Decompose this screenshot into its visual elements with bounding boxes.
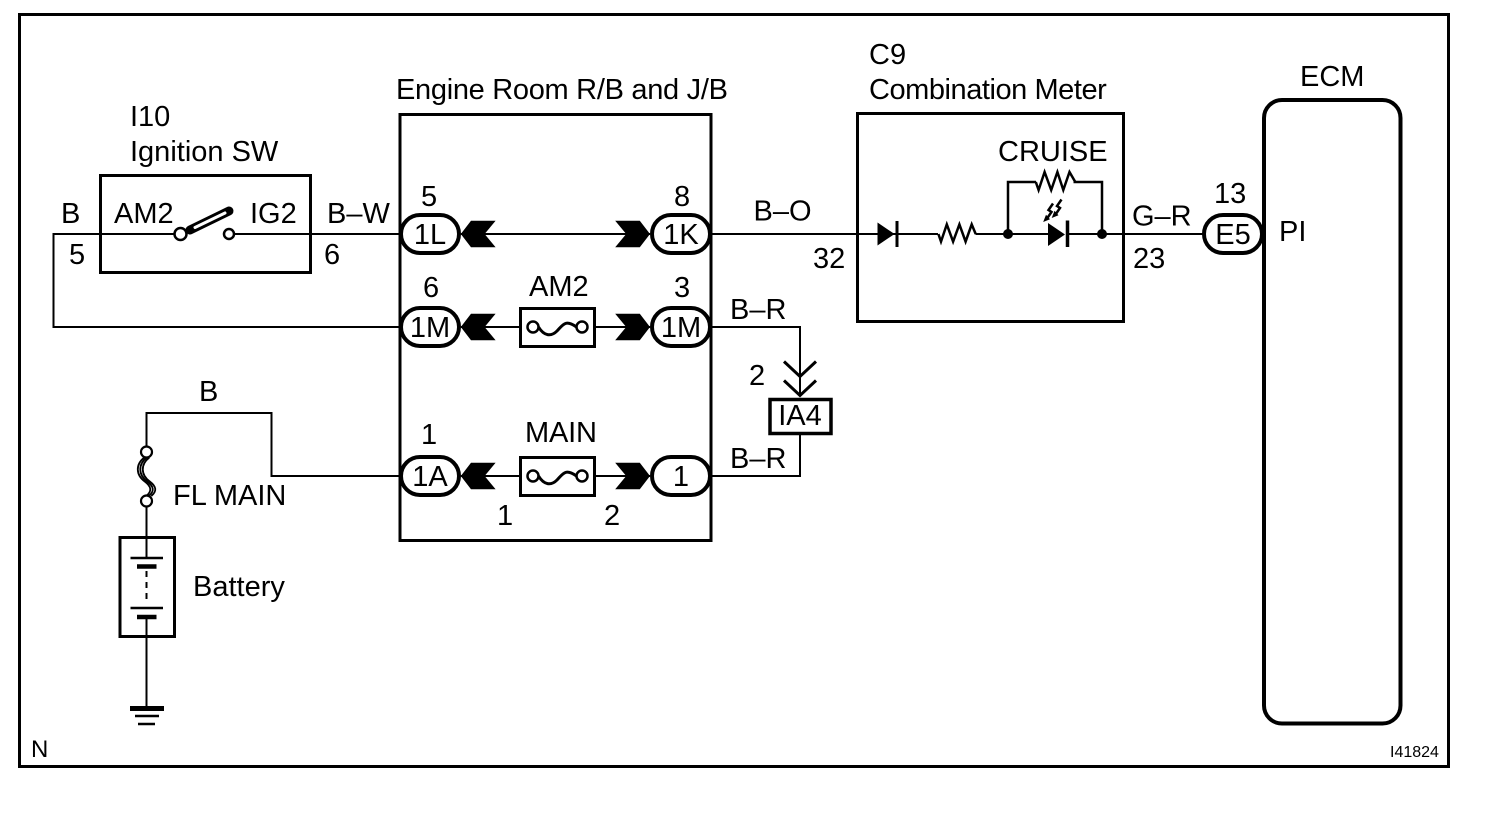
wire row2 1M to 1M xyxy=(461,326,650,328)
svg-text:1: 1 xyxy=(497,500,513,532)
battery cells xyxy=(131,558,164,617)
connector IA4 xyxy=(770,400,831,434)
connector 1M left xyxy=(401,308,459,346)
svg-text:G–R: G–R xyxy=(1132,201,1192,233)
switch contact AM2 xyxy=(175,228,187,240)
connector 1M right xyxy=(652,308,710,346)
svg-text:B: B xyxy=(199,376,218,408)
svg-text:I41824: I41824 xyxy=(1390,744,1439,761)
svg-text:Engine Room R/B and J/B: Engine Room R/B and J/B xyxy=(396,74,728,106)
svg-text:1K: 1K xyxy=(663,219,699,251)
arrow right row2 xyxy=(615,314,650,340)
svg-text:1A: 1A xyxy=(412,461,448,493)
wire row1 1L to 1K xyxy=(461,233,650,235)
fuse MAIN box xyxy=(521,458,595,496)
fuse AM2 box xyxy=(521,309,595,347)
svg-text:PI: PI xyxy=(1279,216,1306,248)
svg-text:5: 5 xyxy=(421,181,437,213)
svg-text:B: B xyxy=(61,198,80,230)
arrow left row2 xyxy=(461,314,496,340)
wire battery to ground xyxy=(146,619,148,707)
wire resistor to LED xyxy=(976,233,1049,235)
svg-text:6: 6 xyxy=(423,272,439,304)
wire meter internal left xyxy=(858,233,938,235)
svg-text:E5: E5 xyxy=(1215,219,1250,251)
svg-text:1: 1 xyxy=(673,461,689,493)
connector 1K xyxy=(652,215,710,253)
arrow left row1 xyxy=(461,221,496,247)
svg-text:FL MAIN: FL MAIN xyxy=(173,480,286,512)
meter box C9 xyxy=(858,114,1124,322)
ground xyxy=(130,709,164,725)
svg-text:Combination Meter: Combination Meter xyxy=(869,74,1107,106)
svg-text:2: 2 xyxy=(749,360,765,392)
wire IG2 contact to 1L xyxy=(233,233,402,235)
svg-text:B–W: B–W xyxy=(327,198,390,230)
wire 1K to meter xyxy=(710,233,858,235)
wire down to FL MAIN xyxy=(146,412,148,446)
wire row3 1A to 1 xyxy=(461,475,650,477)
svg-text:1M: 1M xyxy=(410,312,450,344)
svg-text:B–R: B–R xyxy=(730,294,786,326)
svg-text:C9: C9 xyxy=(869,39,906,71)
svg-text:CRUISE: CRUISE xyxy=(998,136,1108,168)
svg-text:B–R: B–R xyxy=(730,443,786,475)
node junction dot left xyxy=(1003,229,1013,239)
svg-text:32: 32 xyxy=(813,243,845,275)
switch contact IG2 xyxy=(224,229,234,239)
diode D1 xyxy=(878,221,898,247)
svg-text:IG2: IG2 xyxy=(250,198,297,230)
arrow left row3 xyxy=(461,463,496,489)
svg-text:6: 6 xyxy=(324,239,340,271)
wire LED to meter right xyxy=(1068,233,1125,235)
svg-text:8: 8 xyxy=(674,181,690,213)
wire 1 to IA4 bottom xyxy=(710,475,801,477)
arrow double chevron into IA4 xyxy=(784,362,816,396)
wire to 1M row xyxy=(53,326,403,328)
svg-text:N: N xyxy=(31,736,48,763)
svg-text:Ignition SW: Ignition SW xyxy=(130,136,279,168)
battery box xyxy=(120,538,175,637)
svg-text:5: 5 xyxy=(69,239,85,271)
svg-text:1M: 1M xyxy=(661,312,701,344)
arrow right row1 xyxy=(615,221,650,247)
wire battery to 1A xyxy=(146,412,403,476)
wire FL MAIN to battery xyxy=(146,507,148,558)
meter C9 label xyxy=(869,39,1107,106)
connector E5 xyxy=(1204,215,1262,253)
svg-text:Battery: Battery xyxy=(193,571,285,603)
wire IA4 down xyxy=(799,433,801,477)
svg-text:I10: I10 xyxy=(130,101,170,133)
connector 1 right xyxy=(652,457,710,495)
ignition switch box I10 xyxy=(101,176,311,273)
fuse AM2 element xyxy=(528,322,588,335)
fuse MAIN element xyxy=(528,471,588,484)
resistor R2 cruise lamp xyxy=(1036,172,1076,190)
svg-text:2: 2 xyxy=(604,500,620,532)
svg-text:23: 23 xyxy=(1133,243,1165,275)
wire vertical B branch xyxy=(53,233,55,327)
connector 1A xyxy=(401,457,459,495)
resistor R1 xyxy=(938,224,975,241)
wire ignition left to AM2 contact xyxy=(53,233,176,235)
wire 1M to IA4 branch xyxy=(710,326,800,396)
wire meter to E5 xyxy=(1124,233,1205,235)
svg-text:1: 1 xyxy=(421,419,437,451)
svg-text:IA4: IA4 xyxy=(778,400,822,432)
svg-text:B–O: B–O xyxy=(754,196,812,228)
svg-text:AM2: AM2 xyxy=(114,198,174,230)
svg-text:ECM: ECM xyxy=(1300,61,1364,93)
ECM box xyxy=(1264,100,1401,724)
connector 1L xyxy=(401,215,459,253)
svg-text:3: 3 xyxy=(674,272,690,304)
LED indicator lamp xyxy=(1043,200,1067,248)
fusible link FL MAIN xyxy=(138,447,155,507)
wire parallel branch xyxy=(1008,182,1102,234)
arrow right row3 xyxy=(615,463,650,489)
node I10 label xyxy=(130,101,279,168)
svg-text:AM2: AM2 xyxy=(529,271,589,303)
node junction dot right xyxy=(1097,229,1107,239)
svg-text:MAIN: MAIN xyxy=(525,417,597,449)
svg-text:1L: 1L xyxy=(414,219,446,251)
junction block box xyxy=(400,115,711,541)
switch SW1 lever xyxy=(190,211,229,230)
svg-text:13: 13 xyxy=(1214,178,1246,210)
